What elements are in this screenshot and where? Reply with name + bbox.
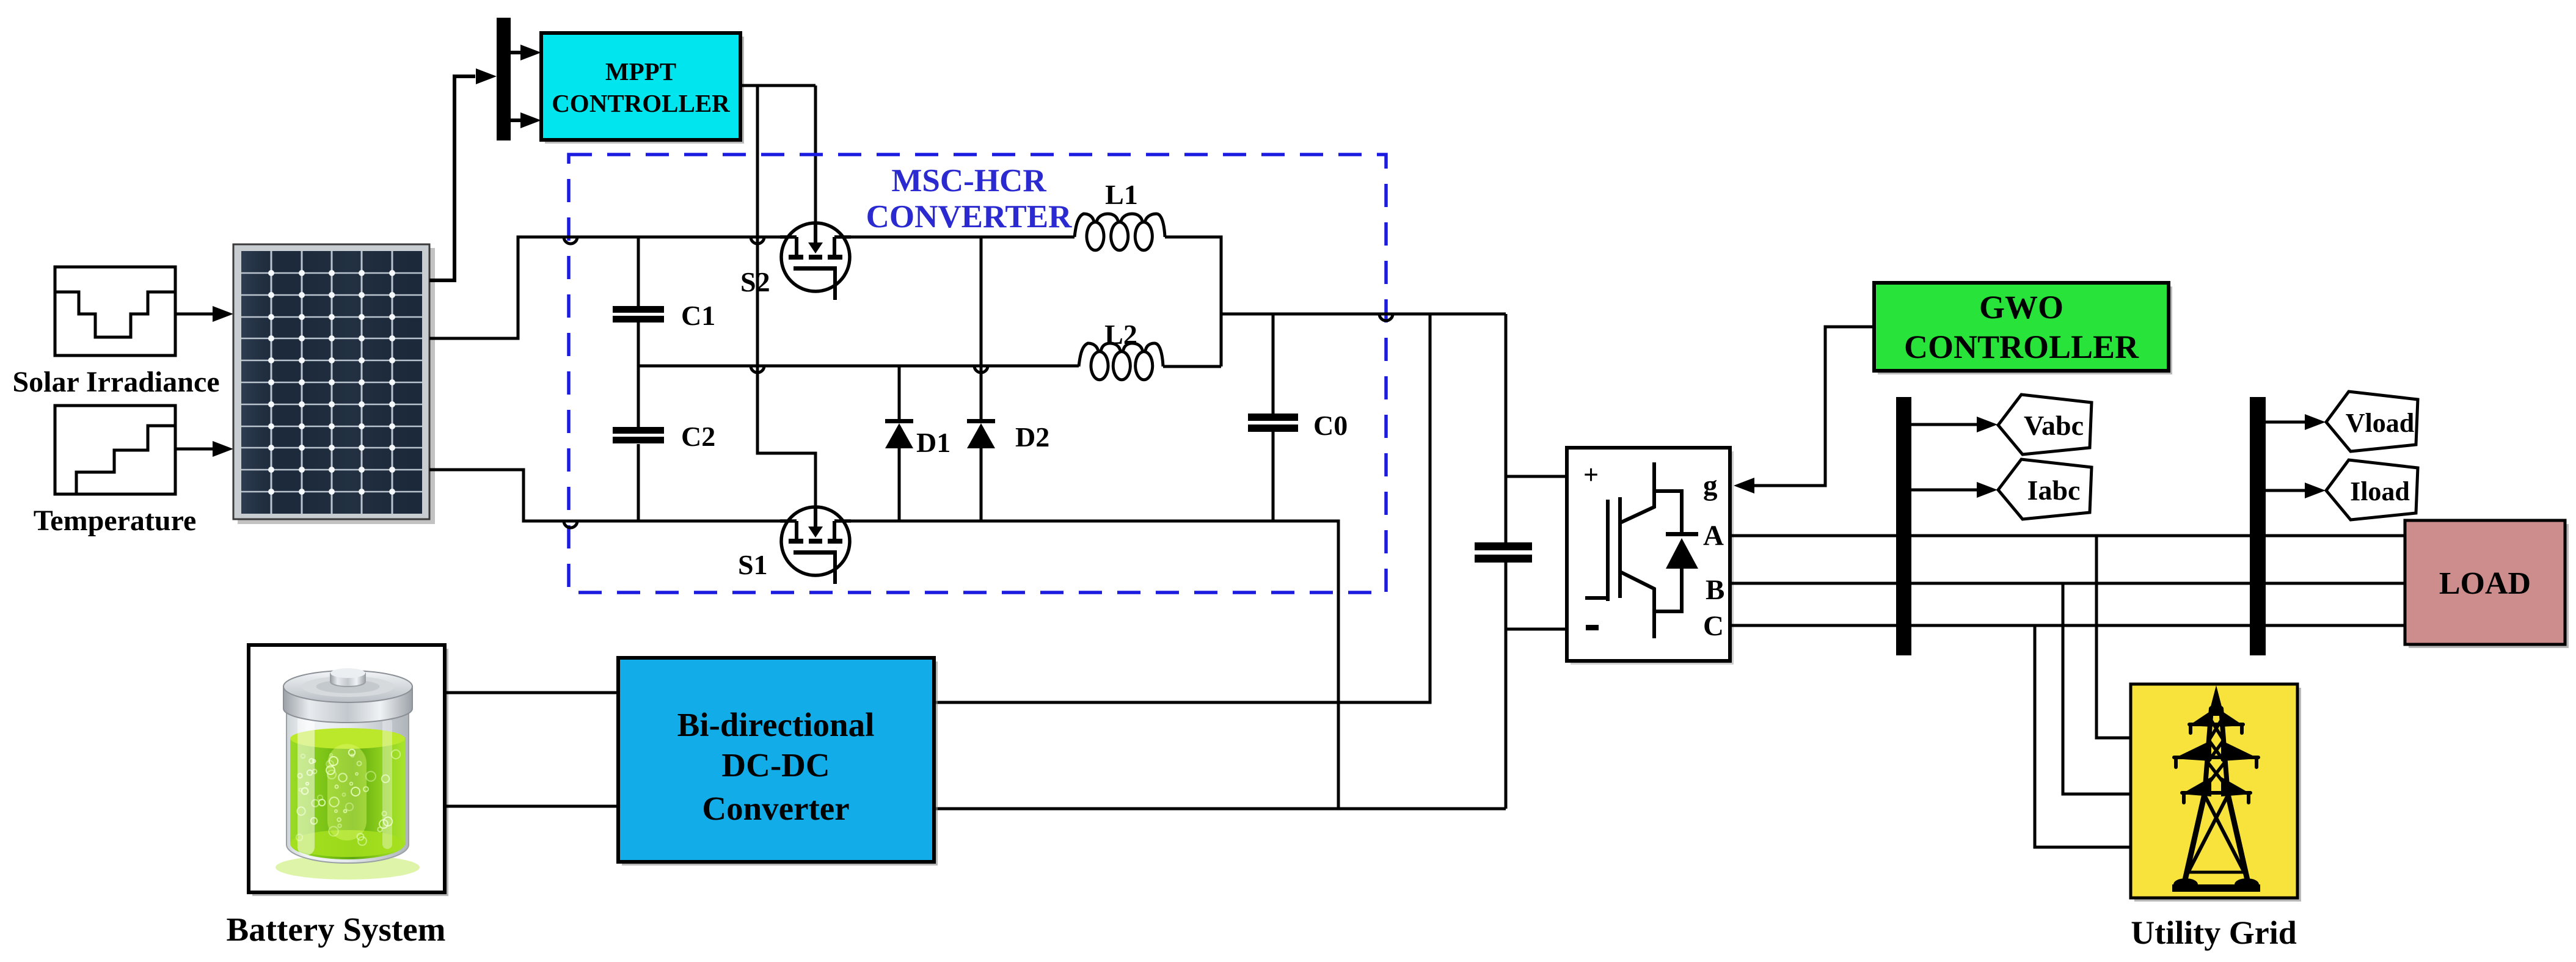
inverter IGBT symbol — [1585, 462, 1682, 638]
wire GWO to inverter gate — [1752, 327, 1874, 486]
inductor L1 — [1075, 214, 1165, 250]
svg-text:C1: C1 — [681, 300, 715, 331]
svg-text:S2: S2 — [740, 266, 770, 297]
svg-text:+: + — [1583, 460, 1599, 490]
wire DC link negative — [1505, 563, 1508, 809]
svg-text:A: A — [1703, 520, 1724, 552]
svg-text:MSC-HCR: MSC-HCR — [891, 163, 1046, 199]
PV solar panel array — [233, 244, 435, 524]
capacitor C0 — [1248, 314, 1298, 521]
source block Solar Irradiance — [55, 267, 175, 355]
wire L1 right to junction — [1165, 237, 1221, 366]
wire MPPT gate drive to S1 (vertical with hops) — [757, 86, 815, 508]
capacitor C2 — [613, 366, 664, 521]
wire temperature to PV array — [175, 441, 233, 457]
wire mid rail C1C2 junction to L2 — [638, 365, 1079, 368]
wire battery positive to DC-DC — [445, 691, 618, 694]
inverter freewheel diode — [1666, 532, 1698, 569]
svg-text:Vload: Vload — [2346, 408, 2414, 438]
svg-text:CONTROLLER: CONTROLLER — [1904, 329, 2139, 365]
capacitor DC link — [1475, 542, 1532, 550]
arrow bus to MPPT input 2 — [511, 112, 541, 128]
wire phase A to utility grid — [2096, 536, 2131, 738]
wire battery negative to DC-DC — [445, 805, 618, 808]
svg-text:D2: D2 — [1015, 421, 1049, 453]
utility grid transmission tower icon — [2172, 685, 2260, 892]
wire MPPT gate drive to S2 — [814, 86, 817, 225]
inverter block — [1567, 448, 1734, 665]
wire phase A — [1730, 534, 2405, 537]
wire converter output rail — [1221, 313, 1506, 316]
battery icon — [275, 668, 420, 880]
tag Iload — [2266, 460, 2418, 520]
LOAD block — [2405, 520, 2569, 648]
wire phase C — [1730, 624, 2405, 627]
wire top rail S2 to L1 — [834, 236, 1075, 239]
source block Temperature — [55, 406, 175, 494]
wire hop top rail over dashed border — [564, 237, 577, 244]
wire phase B to utility grid — [2063, 583, 2131, 794]
wire phase B — [1730, 582, 2405, 585]
svg-text:GWO: GWO — [1979, 289, 2063, 326]
Utility Grid block — [2131, 684, 2301, 902]
svg-text:DC-DC: DC-DC — [721, 746, 830, 784]
svg-text:Iabc: Iabc — [2027, 475, 2081, 506]
svg-text:Temperature: Temperature — [34, 505, 197, 537]
svg-text:Vabc: Vabc — [2024, 410, 2084, 441]
svg-text:MPPT: MPPT — [605, 57, 676, 86]
diode D2 — [967, 237, 995, 521]
svg-text:Iload: Iload — [2350, 476, 2410, 506]
arrow bus to MPPT input 1 — [511, 45, 541, 60]
wire PV negative to bottom rail — [429, 470, 797, 521]
transistor S2 MOSFET — [780, 223, 851, 300]
svg-text:Converter: Converter — [702, 790, 849, 827]
svg-text:LOAD: LOAD — [2439, 566, 2531, 601]
inductor L2 — [1079, 343, 1163, 380]
tag Vabc — [1911, 395, 2092, 454]
svg-text:Battery System: Battery System — [227, 911, 446, 948]
svg-text:Solar Irradiance: Solar Irradiance — [12, 366, 219, 398]
wire MPPT output to gates — [740, 84, 815, 87]
wire phase C to utility grid — [2035, 625, 2131, 847]
bus bar measurement 2 (load side) — [2250, 397, 2266, 655]
wire inverter - feed — [1506, 628, 1567, 631]
GWO CONTROLLER block — [1874, 283, 2172, 374]
svg-text:C: C — [1703, 610, 1724, 642]
bus bar measurement 1 — [1896, 397, 1911, 655]
wire L2 right to junction — [1163, 365, 1221, 368]
wire hop top rail over gate wire — [751, 237, 764, 244]
diode D1 — [885, 366, 913, 521]
svg-text:B: B — [1706, 574, 1724, 606]
capacitor C1 — [613, 237, 664, 366]
svg-text:L1: L1 — [1105, 179, 1138, 210]
bus bar MPPT input — [497, 18, 511, 140]
svg-text:Utility Grid: Utility Grid — [2131, 914, 2296, 951]
wire inverter + feed — [1506, 475, 1567, 478]
transistor S1 MOSFET — [780, 507, 851, 584]
svg-text:C0: C0 — [1313, 410, 1348, 441]
wire solar irradiance to PV array — [175, 306, 233, 322]
wire PV top output to MPPT input bus — [429, 76, 475, 280]
wire hop mid rail over gate wire — [751, 366, 764, 373]
wire DC link positive drop — [1505, 314, 1508, 542]
wire DC-DC converter top output to DC bus — [934, 314, 1430, 702]
Battery System block — [249, 645, 448, 896]
wire DC-DC converter bottom output — [934, 807, 1506, 811]
tag Vload — [2266, 392, 2418, 451]
wire PV positive to top rail — [429, 237, 797, 338]
wire bottom rail S1 to DC-DC junction — [834, 521, 1338, 809]
svg-text:CONVERTER: CONVERTER — [866, 199, 1073, 235]
svg-text:CONTROLLER: CONTROLLER — [552, 89, 730, 117]
MPPT CONTROLLER block — [541, 33, 744, 144]
svg-text:L2: L2 — [1104, 319, 1137, 350]
wire hop bottom rail over dashed border — [564, 521, 577, 528]
Bi-directional DC-DC Converter block — [618, 658, 938, 865]
svg-text:Bi-directional: Bi-directional — [677, 706, 875, 743]
tag Iabc — [1911, 459, 2092, 519]
svg-text:g: g — [1703, 470, 1718, 501]
wire hop output rail at dashed border — [1379, 314, 1393, 321]
MSC-HCR converter dashed boundary — [569, 155, 1386, 592]
svg-text:C2: C2 — [681, 421, 715, 452]
label - — [1586, 625, 1599, 630]
svg-text:S1: S1 — [738, 549, 768, 580]
svg-text:D1: D1 — [916, 427, 950, 458]
wire hop mid rail over D2 branch — [974, 366, 988, 373]
